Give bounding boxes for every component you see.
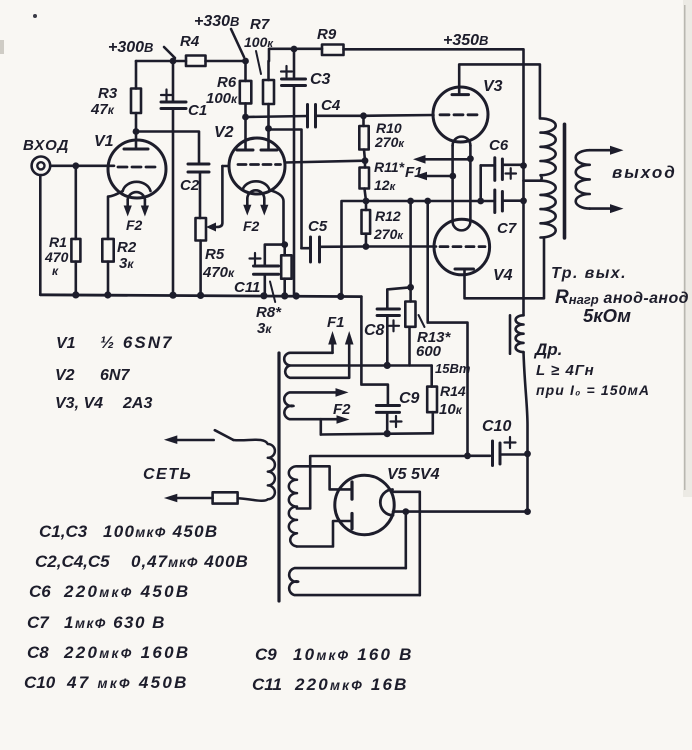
leader R13 label: [419, 315, 425, 327]
label R nagr anod-anod: [555, 287, 689, 308]
choke Dr winding: [516, 315, 524, 352]
label tube list V3 V4: [55, 395, 152, 412]
wire B+ vertical: [524, 352, 528, 512]
capacitor C5: [302, 237, 366, 262]
svg-text:+330B: +330B: [194, 13, 239, 30]
svg-text:C2: C2: [180, 177, 200, 194]
svg-text:C8: C8: [27, 643, 49, 662]
node dot C8 R13: [407, 284, 414, 291]
wire V2 plate to C5: [269, 130, 302, 249]
svg-text:V2: V2: [55, 367, 75, 384]
leader to +330V junction: [231, 29, 244, 57]
svg-text:3к: 3к: [119, 255, 134, 272]
label cap list C11: [252, 675, 409, 694]
label cap list C1 C3: [39, 522, 218, 541]
wire V2 grid2 line: [285, 161, 365, 163]
svg-text:C8: C8: [364, 322, 385, 339]
svg-text:1мкФ 630 В: 1мкФ 630 В: [64, 613, 166, 632]
wire output bottom arrow: [590, 204, 624, 213]
resistor R13: [405, 287, 415, 365]
capacitor C1: [161, 61, 186, 295]
svg-text:R4: R4: [180, 33, 200, 50]
winding T1 primary: [233, 440, 275, 501]
svg-text:ВХОД: ВХОД: [23, 137, 69, 154]
wire HV bottom to V5 plate2: [297, 521, 351, 547]
svg-text:СЕТЬ: СЕТЬ: [143, 466, 192, 483]
svg-text:V3, V4: V3, V4: [55, 395, 103, 412]
label R5 470k: [202, 246, 235, 281]
svg-text:V1: V1: [56, 335, 76, 352]
leader R7 label: [256, 51, 261, 74]
resistor R10: [359, 116, 368, 161]
label cap list C6: [29, 582, 190, 601]
svg-text:C1: C1: [188, 102, 207, 119]
label R6 100k: [206, 74, 238, 107]
svg-text:0,47мкФ 400В: 0,47мкФ 400В: [131, 552, 249, 571]
wire to V3 grid: [364, 114, 434, 117]
wire output top arrow: [590, 146, 624, 155]
label V3: [483, 78, 503, 95]
label R10 270k: [374, 120, 405, 150]
svg-text:220мкФ 450В: 220мкФ 450В: [63, 582, 190, 601]
capacitor C10: [493, 437, 528, 466]
svg-text:C2,C4,C5: C2,C4,C5: [35, 552, 110, 571]
node +330V label: [194, 13, 239, 30]
node dot V1 plate junction: [133, 128, 140, 135]
label V2: [214, 124, 234, 141]
label F2 under V1: [126, 217, 143, 233]
svg-text:+300B: +300B: [108, 39, 153, 56]
node dot B+ filament: [524, 508, 531, 515]
winding F2 heater: [284, 388, 349, 434]
label C11: [234, 279, 260, 296]
svg-text:R11*: R11*: [374, 159, 405, 175]
wire input to V1 grid: [50, 165, 114, 168]
svg-text:V3: V3: [483, 78, 503, 95]
label pri Io=150mA: [536, 382, 650, 398]
wire heater center line y365: [290, 364, 432, 367]
resistor R7 body: [263, 61, 274, 129]
svg-text:220мкФ 16В: 220мкФ 16В: [294, 675, 409, 694]
wire center tap jog: [524, 179, 541, 182]
node dots on ground bus: [72, 291, 344, 300]
svg-text:F1: F1: [405, 164, 423, 181]
wire +300V rail: [136, 60, 246, 63]
svg-text:R3: R3: [98, 85, 118, 102]
resistor R8: [281, 245, 291, 296]
label R12 270k: [373, 208, 404, 242]
node dot R7 plate junction: [265, 125, 272, 132]
resistor R2: [102, 239, 113, 295]
wire ground bus: [40, 295, 361, 297]
svg-text:при I₀ = 150мА: при I₀ = 150мА: [536, 382, 650, 398]
tube V2: [222, 117, 285, 245]
label C8: [364, 322, 385, 339]
label F1 at R11: [405, 164, 423, 181]
label Dr: [533, 340, 562, 359]
wire V1 plate to C2: [136, 132, 199, 165]
svg-text:C1,C3: C1,C3: [39, 522, 88, 541]
label C3: [310, 71, 331, 88]
node dot filament branch: [402, 508, 409, 515]
svg-text:100к: 100к: [206, 90, 238, 107]
svg-text:15Вт: 15Вт: [435, 361, 471, 376]
svg-text:C3: C3: [310, 71, 331, 88]
label SET mains: [143, 466, 192, 483]
tube V5: [335, 475, 394, 534]
svg-text:V2: V2: [214, 124, 234, 141]
svg-text:F2: F2: [333, 401, 351, 418]
svg-text:R8*: R8*: [256, 304, 282, 321]
node dot filament right: [467, 155, 474, 162]
paper edge shading: [0, 0, 692, 497]
capacitor C8: [377, 309, 399, 365]
node dot input/R1: [72, 162, 79, 169]
label cap list C10: [24, 673, 189, 692]
label V4: [493, 267, 513, 284]
svg-text:C4: C4: [321, 97, 341, 114]
wire filament B to C10: [393, 510, 528, 513]
switch SA1: [164, 430, 233, 444]
svg-text:R12: R12: [375, 208, 401, 224]
label C7: [497, 220, 517, 237]
label C1: [188, 102, 207, 119]
svg-text:C6: C6: [29, 582, 51, 601]
resistor R11: [360, 161, 370, 201]
wire filament branch down: [404, 512, 407, 568]
leader R8 label: [270, 282, 275, 303]
svg-text:220мкФ 160В: 220мкФ 160В: [63, 643, 190, 662]
label V5 5V4: [387, 466, 440, 483]
wire F1 upper arrow: [413, 155, 470, 164]
svg-text:270к: 270к: [374, 134, 405, 150]
label C6: [489, 137, 509, 154]
svg-text:47к: 47к: [90, 101, 115, 118]
wire C10 feed line: [468, 454, 491, 457]
svg-text:600: 600: [416, 343, 442, 360]
label C10: [482, 418, 511, 435]
wire bias line y201: [342, 201, 481, 296]
svg-text:C5: C5: [308, 218, 328, 235]
node +350V label: [443, 32, 488, 49]
winding T1 5V: [289, 568, 420, 595]
node dot R4 right junction: [242, 58, 249, 65]
svg-text:L ≥ 4Гн: L ≥ 4Гн: [536, 362, 595, 379]
tube V4: [434, 219, 544, 298]
svg-text:2А3: 2А3: [122, 395, 152, 412]
resistor R12: [362, 201, 371, 247]
capacitor C9: [361, 297, 401, 434]
label vyhod: [612, 163, 677, 182]
label cap list C2 C4 C5: [35, 552, 249, 571]
fuse FU1: [164, 492, 238, 503]
label F1 transformer: [327, 314, 345, 331]
svg-text:R1: R1: [49, 234, 67, 250]
svg-text:C10: C10: [482, 418, 511, 435]
node dot C9 bottom: [384, 430, 391, 437]
transformer T1 core: [277, 353, 280, 601]
svg-text:Др.: Др.: [533, 340, 562, 359]
svg-text:C9: C9: [399, 390, 420, 407]
label C5: [308, 218, 328, 235]
svg-text:R6: R6: [217, 74, 237, 91]
label R3 47k: [90, 85, 118, 118]
svg-text:270к: 270к: [373, 226, 404, 242]
svg-text:к: к: [52, 264, 59, 278]
node dot V2 cathode junction: [281, 241, 288, 248]
svg-text:R2: R2: [117, 239, 137, 256]
svg-text:C10: C10: [24, 673, 56, 692]
node dot C6 rail: [520, 162, 527, 169]
leader to +300V rail: [164, 47, 175, 58]
label 5kOm: [583, 305, 631, 326]
svg-text:R14: R14: [440, 383, 466, 399]
resistor R9: [322, 45, 344, 56]
label C2: [180, 177, 200, 194]
input jack: [32, 157, 51, 295]
wire heater bottom line y434: [321, 433, 433, 434]
svg-text:5кОм: 5кОм: [583, 305, 631, 326]
wire to V4 grid: [366, 245, 436, 248]
label R2 3k: [117, 239, 137, 272]
svg-text:100мкФ 450В: 100мкФ 450В: [103, 522, 218, 541]
svg-text:C7: C7: [497, 220, 517, 237]
transformer T2 primary upper: [541, 118, 556, 180]
label C9: [399, 390, 420, 407]
capacitor C4: [246, 105, 364, 128]
svg-text:выход: выход: [612, 163, 677, 182]
svg-text:12к: 12к: [374, 177, 397, 193]
filament loop V3 V4: [453, 137, 471, 231]
label R4: [180, 33, 200, 50]
wire C8 top branch: [387, 287, 410, 309]
tube V3: [433, 64, 540, 142]
label R1 470k: [44, 234, 69, 278]
node dot C4 R10 junction: [360, 112, 367, 119]
transformer T2 primary lower: [541, 181, 556, 238]
capacitor C6: [481, 158, 524, 181]
wire +330V to R9 rail: [269, 49, 322, 61]
resistor R6: [240, 61, 252, 117]
svg-text:470к: 470к: [202, 264, 235, 281]
label Tr vyh: [551, 265, 627, 282]
svg-text:R5: R5: [205, 246, 225, 263]
label R13* 600 15Vt: [416, 329, 471, 376]
transformer T2 secondary: [576, 150, 590, 208]
label F2 transformer: [333, 401, 351, 418]
wire filament A: [393, 492, 420, 595]
svg-text:C11: C11: [234, 279, 260, 296]
node +300V label: [108, 39, 153, 56]
capacitor C2: [188, 164, 209, 218]
node dot C10 left: [464, 452, 471, 459]
svg-text:Тр. вых.: Тр. вых.: [551, 265, 627, 282]
capacitor C3: [281, 49, 306, 296]
wire +350V rail: [344, 49, 524, 315]
svg-text:47 мкФ 450В: 47 мкФ 450В: [66, 673, 189, 692]
node dot C8 bottom: [384, 362, 391, 369]
label cap list C8: [27, 643, 190, 662]
svg-text:C9: C9: [255, 645, 277, 664]
svg-text:V4: V4: [493, 267, 513, 284]
svg-text:3к: 3к: [257, 320, 272, 337]
svg-text:C11: C11: [252, 675, 282, 694]
node dot R12 V4 grid: [363, 243, 370, 250]
resistor R1: [71, 166, 80, 295]
choke Dr core: [509, 315, 512, 353]
resistor R14: [427, 366, 437, 434]
node dot C7 rail: [520, 197, 527, 204]
svg-text:10к: 10к: [439, 401, 463, 418]
wire F1 lower arrow: [415, 172, 453, 181]
resistor R4: [186, 56, 206, 67]
label L >= 4Gn: [536, 362, 595, 379]
potentiometer R5: [196, 166, 223, 295]
tube V1: [108, 132, 166, 239]
svg-text:6N7: 6N7: [100, 367, 130, 384]
winding T1 HV secondary: [289, 466, 297, 546]
svg-text:½ 6SN7: ½ 6SN7: [100, 333, 173, 352]
label R8* 3k: [256, 304, 282, 337]
label V1: [94, 133, 114, 150]
svg-text:10мкФ 160 В: 10мкФ 160 В: [293, 645, 414, 664]
label R9: [317, 26, 337, 43]
resistor R3: [131, 61, 141, 132]
label tube list V1: [56, 333, 173, 352]
label C4: [321, 97, 341, 114]
node dot C3 tap: [291, 46, 298, 53]
label R11* 12k: [374, 159, 405, 193]
wire heater drop x427: [428, 201, 468, 456]
winding F1 heater: [284, 331, 353, 378]
node dot R10 R11 junction: [362, 157, 369, 164]
node dot C1 tap: [170, 58, 177, 65]
svg-text:V5 5V4: V5 5V4: [387, 466, 440, 483]
node dot R6 plate junction: [242, 114, 249, 121]
svg-text:+350B: +350B: [443, 32, 488, 49]
label tube list V2: [55, 367, 130, 384]
svg-text:V1: V1: [94, 133, 114, 150]
svg-text:R7: R7: [250, 16, 270, 33]
node dot filament left: [449, 173, 456, 180]
label cap list C7: [27, 613, 166, 632]
node dot C10 right: [524, 450, 531, 457]
label R7 100k: [244, 16, 274, 50]
wire HV top to V5 plate1: [297, 466, 351, 489]
wire HV center tap: [297, 456, 468, 509]
node dots on bias line: [363, 198, 485, 205]
transformer T2 core: [563, 124, 567, 238]
svg-text:R9: R9: [317, 26, 337, 43]
label cap list C9: [255, 645, 414, 664]
svg-text:F1: F1: [327, 314, 345, 331]
svg-text:C7: C7: [27, 613, 50, 632]
wire bias drop x410: [409, 201, 412, 287]
svg-text:470: 470: [44, 249, 69, 265]
capacitor C11: [250, 245, 285, 296]
label R14 10k: [439, 383, 466, 418]
svg-text:F2: F2: [243, 218, 260, 234]
svg-text:C6: C6: [489, 137, 509, 154]
label VXOD input: [23, 137, 69, 154]
svg-text:F2: F2: [126, 217, 143, 233]
label F2 under V2: [243, 218, 260, 234]
capacitor C7: [481, 165, 524, 212]
